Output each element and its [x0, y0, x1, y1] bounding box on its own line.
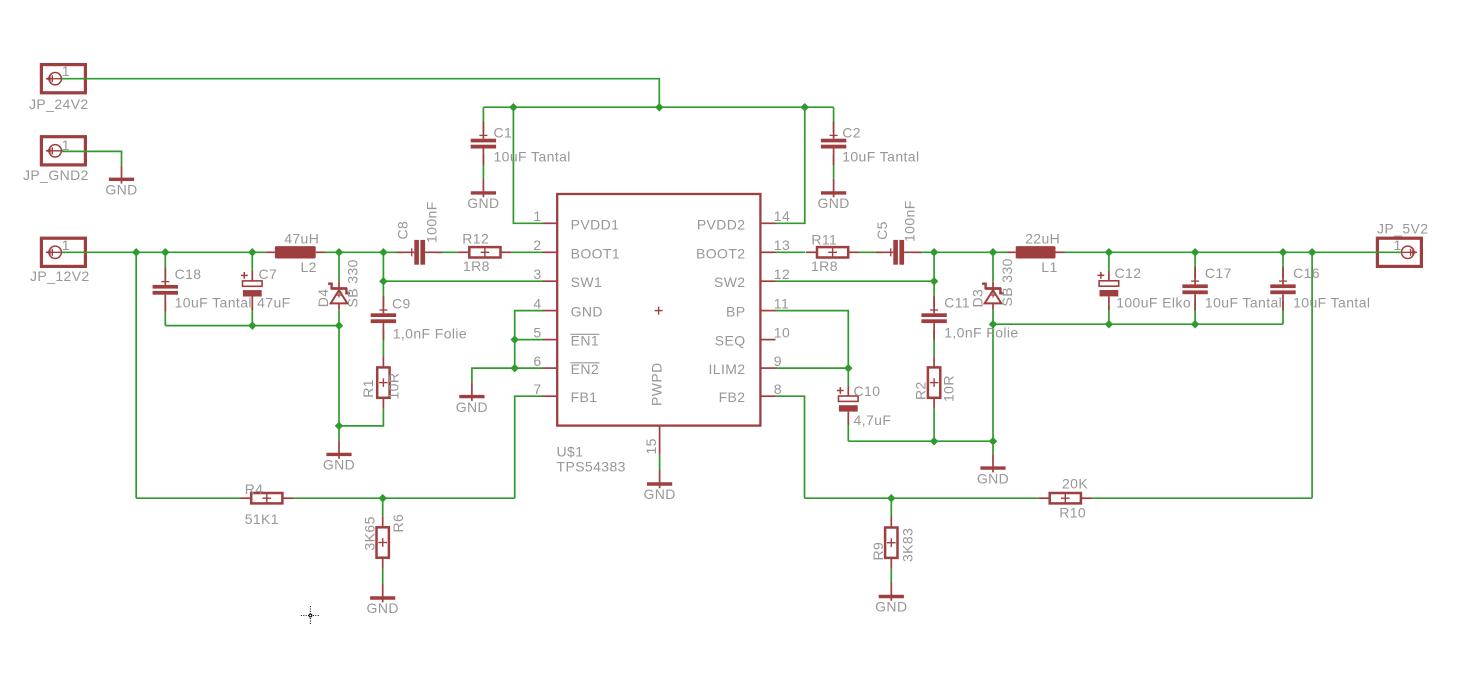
capacitor C7 (polarized) — [241, 271, 262, 310]
wire to SW1 — [383, 252, 542, 281]
svg-text:10uF Tantal: 10uF Tantal — [842, 149, 919, 165]
svg-text:BOOT1: BOOT1 — [571, 245, 620, 261]
svg-text:R4: R4 — [245, 481, 264, 497]
wire C9 to R1 — [382, 330, 384, 357]
junction — [887, 494, 895, 502]
junction — [989, 437, 997, 445]
junction — [930, 277, 938, 285]
svg-text:EN1: EN1 — [571, 333, 599, 349]
svg-text:C18: C18 — [175, 266, 202, 282]
capacitor C9 — [371, 296, 396, 340]
wire 5V output rail — [1064, 251, 1403, 253]
svg-text:51K1: 51K1 — [245, 511, 279, 527]
wire right bottom rail — [848, 440, 993, 442]
svg-text:GND: GND — [977, 470, 1009, 486]
resistor R10 — [1039, 493, 1092, 503]
junction — [378, 494, 386, 502]
resistor R1 — [377, 356, 389, 408]
junction — [335, 248, 343, 256]
pin 15 (PWPD) — [659, 426, 661, 455]
svg-text:C11: C11 — [944, 295, 970, 311]
wire R6 to ground — [382, 569, 384, 584]
wire ILIM2 tie — [776, 367, 849, 369]
svg-text:1: 1 — [62, 63, 70, 79]
svg-text:GND: GND — [456, 399, 488, 415]
ground under R9 — [879, 583, 904, 601]
ground under C2 — [821, 179, 846, 197]
diode D3 — [982, 282, 1004, 310]
resistor R6 — [377, 516, 389, 568]
svg-text:C7: C7 — [259, 266, 278, 282]
wire C2 to ground — [833, 155, 835, 179]
wire PWPD to ground — [659, 455, 661, 470]
svg-text:L1: L1 — [1041, 259, 1057, 275]
junction — [930, 437, 938, 445]
wire to SW2 — [776, 252, 935, 281]
svg-text:10uF Tantal: 10uF Tantal — [175, 294, 252, 310]
wire to D4 — [338, 252, 340, 281]
svg-text:PWPD: PWPD — [648, 362, 664, 406]
wire to ground — [338, 426, 340, 441]
svg-text:PVDD1: PVDD1 — [571, 216, 620, 232]
junction — [248, 321, 256, 329]
capacitor C8 — [397, 240, 443, 265]
svg-text:R1: R1 — [360, 379, 376, 398]
svg-text:JP_12V2: JP_12V2 — [30, 268, 90, 284]
wire C1 to ground — [482, 155, 484, 179]
svg-text:L2: L2 — [301, 259, 317, 275]
junction — [1191, 248, 1199, 256]
wire to PVDD2 — [776, 107, 805, 223]
wire to L1 — [993, 251, 1008, 253]
svg-text:GND: GND — [105, 182, 137, 198]
diode D4 — [328, 282, 350, 310]
wire input to fb row — [135, 252, 137, 498]
wire to C16 — [1282, 252, 1284, 277]
svg-text:14: 14 — [774, 208, 790, 224]
junction — [379, 277, 387, 285]
svg-text:20K: 20K — [1062, 476, 1088, 492]
junction — [1279, 248, 1287, 256]
junction — [1308, 248, 1316, 256]
wire to D3 — [992, 252, 994, 281]
resistor R9 — [885, 517, 897, 569]
svg-text:1,0nF Folie: 1,0nF Folie — [944, 325, 1018, 341]
ground JP_GND2 — [109, 165, 134, 183]
svg-text:5: 5 — [533, 324, 541, 340]
capacitor C1 — [471, 122, 496, 166]
wire FB1 down — [515, 396, 543, 498]
svg-text:3K83: 3K83 — [899, 528, 915, 562]
wire to C17 — [1194, 252, 1196, 277]
ground under C1 — [471, 179, 496, 197]
wire to R9 — [890, 498, 892, 516]
svg-text:100nF: 100nF — [423, 201, 439, 243]
wire C17 to gnd rail — [1194, 301, 1196, 324]
svg-text:R11: R11 — [811, 231, 837, 247]
svg-text:SW1: SW1 — [571, 274, 603, 290]
capacitor C18 — [153, 268, 178, 312]
junction — [132, 248, 140, 256]
wire JP_GND2 to ground — [62, 151, 122, 165]
wire C5 to SW2 node — [913, 251, 934, 253]
svg-text:47uF: 47uF — [257, 294, 291, 310]
pin 6 (EN2) — [533, 353, 557, 369]
wire C12 to gnd rail — [1108, 306, 1110, 324]
junction — [844, 364, 852, 372]
svg-text:12: 12 — [774, 266, 790, 282]
svg-text:100uF Elko: 100uF Elko — [1116, 294, 1191, 310]
svg-text:8: 8 — [774, 381, 782, 397]
svg-text:10uF Tantal: 10uF Tantal — [1293, 294, 1370, 310]
svg-text:3: 3 — [533, 266, 541, 282]
svg-text:1: 1 — [62, 237, 70, 253]
svg-text:U$1: U$1 — [557, 444, 584, 460]
pin 9 (ILIM2) — [760, 353, 782, 369]
junction — [248, 248, 256, 256]
svg-text:10uF Tantal: 10uF Tantal — [494, 149, 571, 165]
svg-text:10: 10 — [774, 324, 790, 340]
svg-text:EN2: EN2 — [571, 361, 599, 377]
svg-text:4,7uF: 4,7uF — [854, 412, 892, 428]
wire BP down — [776, 311, 849, 369]
wire C16 to gnd rail — [1282, 301, 1284, 324]
svg-text:22uH: 22uH — [1025, 231, 1060, 247]
svg-text:JP_24V2: JP_24V2 — [29, 96, 89, 112]
svg-text:11: 11 — [774, 295, 789, 311]
svg-text:C10: C10 — [854, 383, 881, 399]
svg-text:D3: D3 — [970, 289, 986, 308]
svg-text:C1: C1 — [494, 124, 513, 140]
pin 2 (BOOT1) — [533, 237, 557, 253]
svg-text:2: 2 — [533, 237, 541, 253]
capacitor C11 — [921, 296, 946, 340]
svg-text:SEQ: SEQ — [715, 333, 746, 349]
junction — [510, 335, 518, 343]
svg-text:SW2: SW2 — [714, 274, 746, 290]
wire EN1 tie — [515, 339, 543, 341]
wire 24V net — [62, 79, 660, 108]
wire GND pin tie — [515, 311, 543, 369]
wire to C11 — [933, 281, 935, 307]
svg-text:7: 7 — [533, 381, 541, 397]
wire top rail — [483, 106, 833, 108]
wire EN to ground — [472, 368, 515, 383]
resistor R4 — [240, 493, 293, 503]
svg-text:BOOT2: BOOT2 — [696, 245, 745, 261]
ground under R1/D4 — [326, 440, 351, 458]
capacitor C16 — [1270, 267, 1295, 311]
svg-text:13: 13 — [774, 237, 790, 253]
wire to C9 — [382, 281, 384, 307]
IC origin cross — [655, 307, 663, 315]
svg-text:C9: C9 — [392, 296, 411, 312]
junction — [1191, 320, 1199, 328]
svg-text:BP: BP — [726, 304, 745, 320]
pin 12 (SW2) — [760, 266, 790, 282]
junction — [335, 321, 343, 329]
svg-text:R6: R6 — [390, 514, 406, 533]
resistor R12 — [458, 247, 511, 257]
svg-text:1: 1 — [62, 137, 70, 153]
svg-text:9: 9 — [774, 353, 782, 369]
svg-text:GND: GND — [643, 486, 675, 502]
wire C8 to R12 — [435, 251, 458, 253]
op-amp U1 (IC TPS54383) — [557, 194, 760, 426]
wire fb row to R4 — [136, 497, 240, 499]
wire C10 down — [847, 422, 849, 442]
svg-text:FB2: FB2 — [719, 389, 746, 405]
svg-text:C17: C17 — [1205, 265, 1232, 281]
svg-text:15: 15 — [643, 438, 659, 454]
wire D3 down — [992, 309, 994, 441]
svg-text:3K65: 3K65 — [361, 516, 377, 550]
pin 3 (SW1) — [533, 266, 557, 282]
wire to C1 — [482, 107, 484, 132]
wire FB2 down — [776, 396, 805, 498]
wire to R6 — [382, 498, 384, 516]
pin 4 (GND) — [533, 295, 557, 311]
svg-text:1,0nF Folie: 1,0nF Folie — [393, 326, 467, 342]
svg-text:GND: GND — [817, 195, 849, 211]
junction — [161, 248, 169, 256]
svg-text:4: 4 — [533, 295, 541, 311]
svg-text:1: 1 — [1394, 237, 1402, 253]
svg-text:1R8: 1R8 — [811, 258, 838, 274]
wire left gnd rail — [165, 325, 339, 327]
svg-text:C16: C16 — [1293, 265, 1320, 281]
svg-text:10uF Tantal: 10uF Tantal — [1205, 294, 1282, 310]
wire R2 down — [933, 409, 935, 441]
pin 11 (BP) — [760, 295, 789, 311]
resistor R2 — [928, 356, 940, 408]
svg-text:1: 1 — [533, 208, 541, 224]
wire C18 to gnd rail — [164, 301, 166, 325]
wire C7 to gnd rail — [251, 307, 253, 326]
svg-text:JP_5V2: JP_5V2 — [1377, 221, 1428, 237]
pin 7 (FB1) — [533, 381, 557, 397]
junction — [989, 320, 997, 328]
svg-text:GND: GND — [367, 600, 399, 616]
capacitor C5 — [876, 240, 922, 265]
wire L2 to C8 — [324, 251, 405, 253]
pin 13 (BOOT2) — [760, 237, 790, 253]
capacitor C12 (polarized) — [1098, 271, 1119, 310]
ground EN pins — [459, 383, 484, 401]
junction — [655, 103, 663, 111]
svg-text:47uH: 47uH — [284, 231, 319, 247]
junction — [379, 248, 387, 256]
wire to C18 — [164, 252, 166, 278]
wire to C2 — [833, 107, 835, 132]
junction — [1105, 320, 1113, 328]
pin label EN1 — [570, 333, 599, 349]
wire to C7 — [251, 252, 253, 271]
junction — [930, 248, 938, 256]
svg-text:R9: R9 — [870, 542, 886, 561]
svg-text:GND: GND — [875, 599, 907, 615]
junction — [510, 364, 518, 372]
svg-text:PVDD2: PVDD2 — [697, 216, 746, 232]
wire R1 to gnd node — [339, 409, 383, 426]
resistor R11 — [806, 247, 859, 257]
svg-text:JP_GND2: JP_GND2 — [23, 167, 89, 183]
junction — [1105, 248, 1113, 256]
connector JP_GND2 — [41, 137, 85, 165]
connector JP_24V2 — [41, 65, 85, 93]
capacitor C2 — [821, 122, 846, 166]
svg-text:D4: D4 — [315, 289, 331, 308]
connector JP_5V2 — [1377, 238, 1421, 266]
pin 14 (PVDD2) — [760, 208, 790, 224]
wire R12 to BOOT1 — [512, 251, 543, 253]
svg-text:10R: 10R — [386, 373, 402, 400]
svg-text:C12: C12 — [1115, 265, 1142, 281]
pin label EN2 — [570, 361, 599, 377]
wire R9 to ground — [890, 569, 892, 583]
wire to PVDD1 — [513, 107, 542, 223]
svg-text:R2: R2 — [913, 381, 929, 400]
wire right gnd rail — [993, 323, 1283, 325]
junction — [335, 422, 343, 430]
svg-text:C2: C2 — [842, 124, 861, 140]
wire R10 to output — [1092, 497, 1312, 499]
wire C11 to R2 — [933, 330, 935, 357]
svg-text:GND: GND — [323, 457, 355, 473]
svg-text:6: 6 — [533, 353, 541, 369]
capacitor C17 — [1182, 267, 1207, 311]
wire to C10 — [847, 368, 849, 386]
pin 5 (EN1) — [533, 324, 557, 340]
wire to ground — [992, 441, 994, 454]
ground under R6 — [370, 584, 395, 602]
wire R11 to C5 — [859, 251, 883, 253]
svg-text:R10: R10 — [1059, 505, 1086, 521]
ground under D3 — [980, 454, 1005, 472]
svg-text:FB1: FB1 — [571, 389, 598, 405]
junction — [989, 248, 997, 256]
svg-text:SB 330: SB 330 — [999, 258, 1015, 306]
pin 1 (PVDD1) — [533, 208, 557, 224]
wire EN2 tie — [515, 367, 543, 369]
pin 10 (SEQ) — [760, 324, 790, 340]
wire to C12 — [1108, 252, 1110, 270]
wire output to R10 — [1311, 252, 1313, 498]
svg-text:GND: GND — [467, 195, 499, 211]
wire gnd rail down — [338, 326, 340, 426]
ground PWPD — [647, 470, 672, 488]
svg-text:C5: C5 — [874, 221, 890, 240]
svg-text:GND: GND — [571, 304, 603, 320]
svg-text:SB 330: SB 330 — [344, 259, 360, 307]
svg-text:1R8: 1R8 — [463, 258, 490, 274]
wire fb row to R10 — [805, 497, 1039, 499]
wire SW2 rail — [934, 251, 993, 253]
svg-text:100nF: 100nF — [901, 200, 917, 242]
junction — [509, 103, 517, 111]
wire BOOT2 to R11 — [776, 251, 806, 253]
capacitor C10 (polarized) — [837, 386, 858, 425]
svg-text:ILIM2: ILIM2 — [708, 361, 745, 377]
connector JP_12V2 — [41, 238, 85, 266]
wire R4 to FB1 — [293, 497, 514, 499]
cursor crosshair — [301, 606, 320, 625]
svg-text:10R: 10R — [941, 375, 957, 402]
pin 8 (FB2) — [760, 381, 782, 397]
wire D4 to gnd rail — [338, 309, 340, 325]
wire 12V rail — [62, 251, 267, 253]
junction — [801, 103, 809, 111]
svg-text:TPS54383: TPS54383 — [557, 458, 626, 474]
svg-text:R12: R12 — [462, 230, 489, 246]
inductor L1 — [1008, 246, 1065, 258]
svg-text:C8: C8 — [395, 221, 411, 240]
inductor L2 — [267, 246, 325, 258]
